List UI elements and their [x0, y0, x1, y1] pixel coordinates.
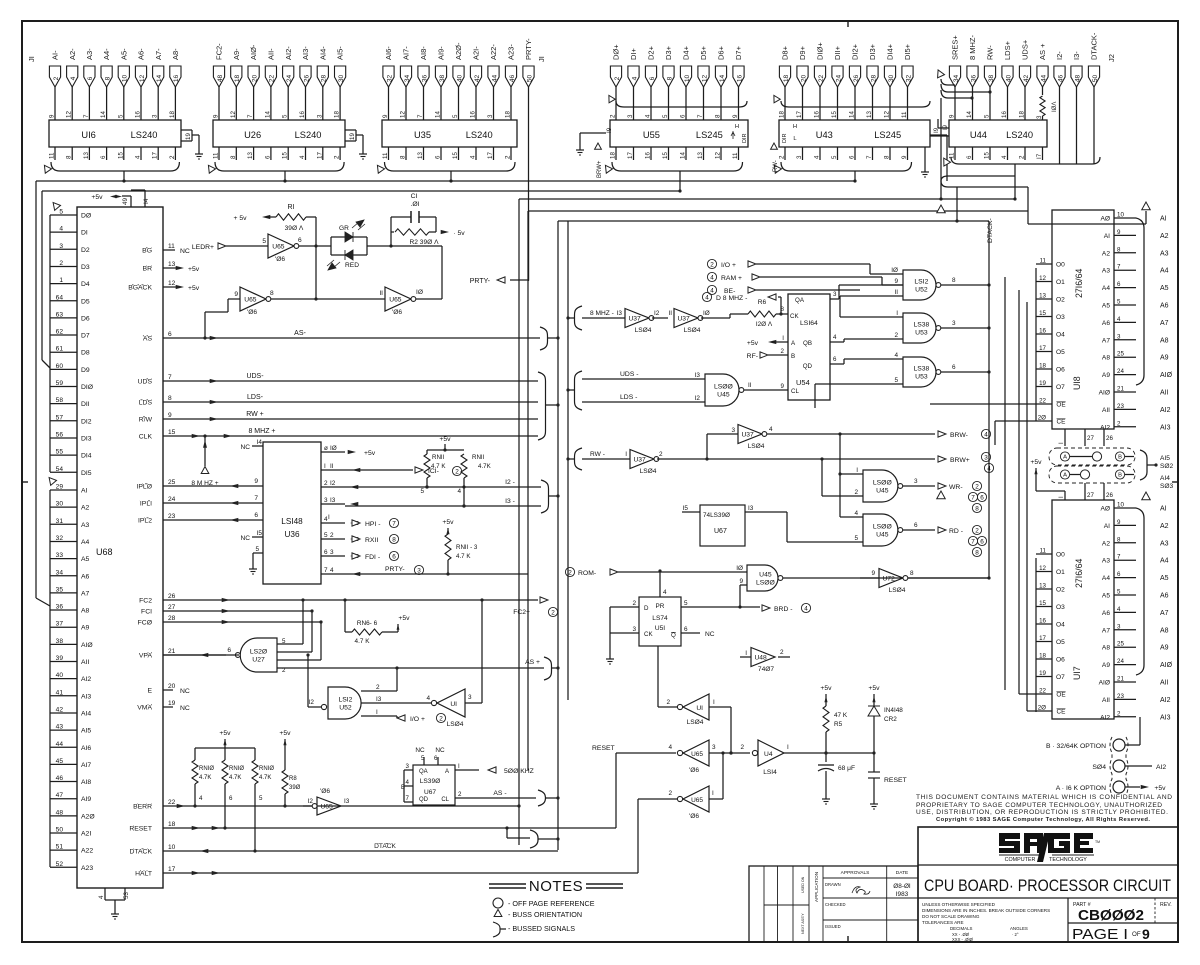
- svg-text:USE, DISTRIBUTION, OR REPRODUC: USE, DISTRIBUTION, OR REPRODUCTION IS ST…: [916, 809, 1168, 816]
- svg-text:A3: A3: [1102, 558, 1110, 565]
- svg-text:4: 4: [769, 426, 773, 433]
- svg-text:A: A: [445, 769, 449, 775]
- svg-text:AI: AI: [1104, 523, 1110, 530]
- svg-text:56: 56: [56, 431, 64, 438]
- buffer U48 7407: [740, 648, 790, 674]
- svg-text:ANGLES: ANGLES: [1010, 926, 1028, 931]
- svg-text:53: 53: [123, 892, 130, 899]
- off page flag BE-: [707, 285, 860, 295]
- U44 bottom pins: [949, 147, 1026, 160]
- svg-text:3: 3: [1117, 333, 1121, 340]
- svg-text:I: I: [745, 650, 747, 657]
- off page flag I/O+: [397, 713, 446, 723]
- svg-text:O7: O7: [1056, 674, 1065, 681]
- svg-text:U55: U55: [643, 130, 660, 140]
- connector pin 46 (I2-): [1054, 51, 1065, 164]
- svg-text:5: 5: [984, 114, 991, 118]
- UI7 address bus bracket: [1136, 492, 1150, 675]
- svg-text:50: 50: [526, 75, 533, 83]
- wire AS+ line to U27: [277, 657, 560, 680]
- wire U68 data bus vertical: [49, 215, 51, 472]
- svg-text:RNIØ: RNIØ: [199, 766, 214, 772]
- svg-text:U67: U67: [424, 789, 436, 796]
- svg-text:I9: I9: [943, 124, 949, 130]
- bus orientation triangle at U68 data bus: [50, 200, 60, 210]
- wire option S04 to AI2: [1125, 764, 1166, 771]
- svg-text:2: 2: [779, 155, 786, 159]
- svg-text:15: 15: [168, 429, 176, 436]
- svg-text:BRW-: BRW-: [950, 432, 968, 439]
- svg-text:DIR: DIR: [782, 134, 788, 144]
- svg-text:JI: JI: [27, 56, 36, 62]
- svg-text:O6: O6: [1056, 657, 1065, 664]
- wire vertical riser x=1019: [1019, 290, 1036, 694]
- svg-text:APPLICATION: APPLICATION: [814, 872, 819, 902]
- svg-text:4: 4: [668, 744, 672, 751]
- connector pin 22 (DIØ+): [814, 42, 825, 120]
- wire middle bus vertical x=519: [518, 199, 520, 845]
- svg-text:I3: I3: [344, 798, 350, 805]
- svg-text:11: 11: [732, 152, 739, 159]
- svg-text:PAGE I: PAGE I: [1072, 927, 1128, 943]
- 8MHZ+ bus feed triangle: [191, 434, 218, 487]
- svg-text:AI3: AI3: [1160, 424, 1171, 431]
- svg-text:UDS -: UDS -: [620, 371, 639, 378]
- svg-text:U53: U53: [915, 373, 928, 380]
- svg-text:6: 6: [684, 626, 688, 633]
- svg-text:A5: A5: [1160, 575, 1169, 582]
- svg-text:8: 8: [952, 277, 956, 284]
- svg-text:AI2: AI2: [1100, 424, 1110, 431]
- svg-text:30: 30: [888, 75, 895, 83]
- svg-text:'Ø6: 'Ø6: [320, 788, 330, 795]
- svg-text:4: 4: [470, 155, 477, 159]
- LED RED: [327, 244, 393, 270]
- svg-text:AII: AII: [1102, 407, 1110, 414]
- svg-text:AI8-: AI8-: [419, 46, 428, 60]
- svg-text:U37: U37: [741, 431, 754, 438]
- svg-text:D9+: D9+: [798, 45, 807, 60]
- svg-text:IØ: IØ: [891, 267, 898, 274]
- U68 pin BERR wire: [133, 799, 519, 811]
- svg-text:A4: A4: [1102, 285, 1110, 292]
- svg-text:28: 28: [321, 75, 328, 83]
- svg-text:26: 26: [1106, 435, 1113, 442]
- svg-text:6: 6: [168, 331, 172, 338]
- svg-text:17: 17: [1039, 345, 1046, 352]
- svg-text:NC: NC: [180, 688, 190, 695]
- NAND LS20 U27: [163, 598, 323, 674]
- svg-text:A2: A2: [81, 505, 90, 512]
- SAGE logo: [999, 833, 1100, 863]
- svg-text:4: 4: [984, 431, 988, 438]
- svg-text:7: 7: [324, 567, 328, 574]
- connector pin 10 (D4+): [680, 45, 691, 120]
- svg-text:49: 49: [122, 197, 129, 205]
- svg-text:12: 12: [139, 75, 146, 83]
- connector pin 48 (I3-) long line: [1071, 51, 1082, 164]
- U55 top pin numbers: [610, 114, 740, 118]
- svg-text:2: 2: [1019, 155, 1026, 159]
- svg-text:U65: U65: [389, 296, 402, 303]
- connector pin 48 (I3-): [1071, 51, 1082, 164]
- svg-text:.ØI: .ØI: [410, 201, 419, 208]
- svg-text:AI4-: AI4-: [318, 46, 327, 60]
- svg-text:· 5v: · 5v: [453, 230, 465, 237]
- svg-text:PR: PR: [656, 603, 665, 610]
- svg-text:AS: AS: [143, 336, 153, 343]
- svg-text:LSØ4: LSØ4: [635, 327, 652, 334]
- svg-text:+5v: +5v: [398, 615, 410, 622]
- UI7 OE pin 22: [1036, 688, 1066, 699]
- svg-text:4.7 K: 4.7 K: [456, 553, 471, 560]
- svg-text:CL: CL: [791, 388, 799, 395]
- svg-text:17: 17: [1039, 635, 1046, 642]
- svg-text:3: 3: [316, 114, 323, 118]
- UI8 CE pin 20: [1036, 415, 1065, 426]
- svg-text:47 K: 47 K: [834, 712, 848, 719]
- svg-text:U68: U68: [96, 547, 113, 557]
- svg-text:LDS -: LDS -: [620, 394, 637, 401]
- svg-text:RN6- 6: RN6- 6: [357, 620, 378, 627]
- svg-text:48: 48: [217, 75, 224, 83]
- svg-text:15: 15: [831, 111, 838, 118]
- svg-text:14: 14: [435, 111, 442, 118]
- svg-text:O5: O5: [1056, 349, 1065, 356]
- NAND LS38 U53b: [844, 352, 991, 387]
- svg-text:A6: A6: [81, 573, 90, 580]
- wire middle bus vertical x=528: [527, 211, 529, 770]
- svg-text:3: 3: [627, 114, 634, 118]
- svg-text:4: 4: [1001, 155, 1008, 159]
- svg-text:58: 58: [56, 397, 64, 404]
- svg-text:A9: A9: [1160, 355, 1169, 362]
- svg-text:4.7K: 4.7K: [229, 775, 241, 781]
- wire AS- brace at LS390: [546, 796, 560, 799]
- svg-text:3: 3: [59, 243, 63, 250]
- U68 pin LDS wire: [139, 394, 538, 407]
- svg-text:A2Ø-: A2Ø-: [454, 42, 463, 60]
- svg-text:AIØ: AIØ: [1099, 680, 1110, 687]
- LED GR: [331, 220, 367, 255]
- svg-text:I2: I2: [695, 395, 701, 402]
- svg-text:A2I: A2I: [81, 831, 91, 838]
- off page flag BRW-: [938, 429, 991, 439]
- svg-text:O1: O1: [1056, 279, 1065, 286]
- svg-text:15: 15: [1039, 310, 1046, 317]
- push button RESET switch: [868, 753, 907, 809]
- svg-text:4: 4: [705, 294, 709, 301]
- svg-text:I: I: [458, 763, 460, 770]
- PRTY- off page flag: [470, 211, 529, 285]
- svg-text:DI3+: DI3+: [868, 43, 877, 60]
- svg-text:5ØØ KHZ: 5ØØ KHZ: [504, 768, 534, 775]
- svg-text:I/O +: I/O +: [721, 262, 736, 269]
- svg-text:D8: D8: [81, 350, 90, 357]
- svg-text:RW +: RW +: [246, 411, 264, 418]
- UI7 output pins O0-O7: [1036, 548, 1065, 682]
- wire OE/CE runs left of ROMs: [930, 404, 1036, 445]
- svg-text:A3: A3: [1102, 268, 1110, 275]
- connector pin 34 (AI7-): [400, 46, 411, 120]
- wire bus horizontal y=221: [558, 187, 989, 223]
- U68 pin DTACK wire: [129, 843, 558, 856]
- off page flag BRD-: [762, 603, 811, 613]
- svg-text:QB: QB: [803, 340, 812, 347]
- svg-text:LS245: LS245: [696, 130, 723, 140]
- svg-text:7: 7: [971, 538, 975, 545]
- connector pin 10 (A5-): [118, 48, 129, 120]
- svg-text:11: 11: [949, 152, 956, 159]
- svg-text:RAM +: RAM +: [721, 275, 742, 282]
- U43 output bus gather: [771, 162, 911, 183]
- svg-text:18: 18: [168, 821, 176, 828]
- svg-text:45: 45: [56, 758, 64, 765]
- svg-text:9: 9: [49, 114, 56, 118]
- svg-text:D3+: D3+: [664, 45, 673, 60]
- svg-text:AI4: AI4: [81, 710, 91, 717]
- svg-text:74Ø7: 74Ø7: [758, 666, 774, 673]
- U36 right pin 7 PRTY wire: [321, 565, 528, 576]
- svg-text:A7: A7: [81, 590, 90, 597]
- svg-text:13: 13: [247, 152, 254, 159]
- svg-text:A5: A5: [1102, 593, 1110, 600]
- svg-text:NC: NC: [705, 631, 715, 638]
- svg-text:25: 25: [168, 479, 176, 486]
- svg-text:7: 7: [1117, 264, 1121, 271]
- svg-text:U65: U65: [691, 751, 703, 758]
- svg-text:A23-: A23-: [507, 44, 516, 60]
- svg-text:+5v: +5v: [364, 450, 376, 457]
- U68 pin BG: [142, 243, 190, 255]
- U35 output bus gather: [374, 162, 515, 183]
- svg-text:A3: A3: [1160, 540, 1169, 547]
- svg-text:23: 23: [168, 513, 176, 520]
- svg-text:IPLØ: IPLØ: [137, 484, 153, 491]
- UI8 output pins O0-O7: [1036, 258, 1065, 392]
- U44 top pin numbers: [949, 111, 1026, 118]
- svg-text:5: 5: [1117, 299, 1121, 306]
- svg-text:BE-: BE-: [724, 288, 735, 295]
- svg-text:QA: QA: [795, 297, 805, 304]
- svg-text:UI6: UI6: [81, 130, 95, 140]
- svg-text:AS -: AS -: [493, 790, 506, 797]
- svg-text:8: 8: [230, 155, 237, 159]
- svg-text:12: 12: [230, 111, 237, 118]
- svg-text:I3: I3: [695, 372, 701, 379]
- svg-text:DI4+: DI4+: [886, 43, 895, 60]
- bus orientation triangle at U68 address bus: [46, 475, 56, 485]
- svg-text:12: 12: [66, 111, 73, 118]
- svg-text:+5v: +5v: [279, 730, 291, 737]
- svg-text:U65: U65: [691, 797, 703, 804]
- svg-text:U4: U4: [764, 751, 773, 758]
- svg-text:DI5+: DI5+: [903, 43, 912, 60]
- svg-text:5: 5: [259, 795, 263, 802]
- bus exit brace 8MHZ-: [566, 306, 582, 330]
- svg-text:4: 4: [426, 695, 430, 702]
- svg-text:BRW+: BRW+: [950, 457, 970, 464]
- connector pin 46 (A23-): [505, 44, 516, 120]
- svg-text:AI: AI: [1104, 233, 1110, 240]
- svg-text:DECIMALS: DECIMALS: [950, 926, 973, 931]
- svg-text:25: 25: [1117, 641, 1124, 648]
- connector pin 38 (AI9-): [435, 46, 446, 120]
- svg-text:5: 5: [324, 532, 328, 539]
- svg-text:FDI -: FDI -: [365, 554, 380, 561]
- svg-text:LSI48: LSI48: [281, 517, 303, 526]
- svg-text:68 μF: 68 μF: [838, 765, 855, 772]
- svg-text:60: 60: [56, 363, 64, 370]
- svg-text:LS38: LS38: [913, 322, 929, 329]
- svg-text:9: 9: [732, 114, 739, 118]
- connector pin 2 (AI-): [49, 50, 60, 120]
- connector pin 50 (DTACK-): [1088, 32, 1099, 164]
- svg-text:41: 41: [56, 689, 64, 696]
- svg-text:7: 7: [697, 114, 704, 118]
- U26 bottom pins: [213, 147, 341, 160]
- wire 8MHZ- to U37: [582, 310, 625, 318]
- svg-text:+5v: +5v: [1154, 785, 1166, 792]
- svg-text:2: 2: [330, 532, 334, 539]
- svg-text:26: 26: [168, 593, 176, 600]
- connector pin 4 (DI+): [628, 48, 639, 121]
- svg-text:14: 14: [966, 111, 973, 118]
- svg-text:6: 6: [980, 494, 984, 501]
- svg-text:A6-: A6-: [137, 48, 146, 60]
- svg-text:QA: QA: [419, 769, 428, 775]
- option circles 32/64K: [1046, 737, 1128, 795]
- wire U18 outputs vertical bus: [1035, 268, 1037, 421]
- svg-text:FC2-: FC2-: [215, 43, 224, 60]
- connector pin 18 (D8+): [779, 45, 790, 120]
- svg-text:9: 9: [213, 114, 220, 118]
- wire pin11 to LS38a vertical: [839, 296, 841, 317]
- svg-text:CBØØØ2: CBØØØ2: [1078, 908, 1144, 924]
- svg-text:AIØ-: AIØ-: [249, 44, 258, 60]
- svg-text:I: I: [787, 744, 789, 751]
- svg-text:74LS39Ø: 74LS39Ø: [703, 512, 730, 519]
- svg-text:USED ON: USED ON: [801, 876, 805, 893]
- svg-text:7: 7: [392, 520, 396, 527]
- UI8 right bus labels A1-A13: [1160, 216, 1173, 432]
- svg-text:LSØ4: LSØ4: [640, 468, 657, 475]
- svg-text:DØ: DØ: [81, 213, 92, 220]
- svg-text:O3: O3: [1056, 314, 1065, 321]
- svg-text:+ 5v: + 5v: [233, 215, 247, 222]
- svg-text:LSØ4: LSØ4: [687, 719, 704, 726]
- svg-text:DTACK-: DTACK-: [1090, 32, 1099, 60]
- svg-text:AI8: AI8: [81, 779, 91, 786]
- svg-text:I3: I3: [617, 310, 623, 317]
- svg-text:28: 28: [870, 75, 877, 83]
- svg-text:2: 2: [376, 684, 380, 691]
- svg-text:BERR: BERR: [133, 804, 152, 811]
- svg-text:27: 27: [1087, 492, 1094, 499]
- svg-text:16: 16: [173, 75, 180, 83]
- svg-text:A22-: A22-: [489, 44, 498, 60]
- svg-text:4.7K: 4.7K: [199, 775, 211, 781]
- svg-text:+5v: +5v: [747, 340, 759, 347]
- svg-text:U43: U43: [816, 130, 833, 140]
- svg-text:DIR: DIR: [742, 134, 748, 144]
- svg-text:HPI -: HPI -: [365, 521, 380, 528]
- svg-text:RD -: RD -: [949, 528, 963, 535]
- svg-text:WR-: WR-: [949, 484, 963, 491]
- svg-text:U45: U45: [876, 531, 889, 538]
- inverter U37c LS04 on RW-: [582, 450, 935, 476]
- svg-text:DTACK-: DTACK-: [987, 218, 994, 243]
- svg-text:AI-: AI-: [51, 50, 60, 60]
- resistor RN10 b 4.7K: [222, 748, 244, 830]
- svg-text:B: B: [1118, 455, 1122, 461]
- svg-text:3: 3: [984, 454, 988, 461]
- svg-text:IØ: IØ: [416, 289, 423, 296]
- inverter U65f '06 halt: [638, 786, 723, 873]
- svg-text:A9: A9: [1102, 372, 1110, 379]
- inverter U72 LS04 gate: [860, 569, 989, 595]
- svg-text:4: 4: [406, 779, 410, 786]
- svg-text:44: 44: [56, 741, 64, 748]
- svg-text:14: 14: [264, 111, 271, 118]
- svg-text:RNIØ: RNIØ: [229, 766, 244, 772]
- svg-text:4: 4: [631, 76, 638, 80]
- svg-text:7: 7: [247, 114, 254, 118]
- wire address bus horizontal y=181: [36, 180, 855, 182]
- svg-text:39Ø Λ: 39Ø Λ: [285, 225, 304, 232]
- svg-text:O6: O6: [1056, 367, 1065, 374]
- connector pin 12 (D5+): [698, 45, 709, 120]
- svg-text:II: II: [894, 289, 898, 296]
- svg-text:U52: U52: [915, 286, 928, 293]
- bus entry brace UDS/LDS/RW/8MHZ: [538, 372, 560, 440]
- svg-text:19: 19: [349, 133, 356, 140]
- part number block: [1073, 902, 1172, 924]
- svg-text:I2Ø Λ: I2Ø Λ: [756, 321, 773, 328]
- svg-text:2: 2: [59, 260, 63, 267]
- svg-text:A6: A6: [1160, 303, 1169, 310]
- BRW+ flag at U55: [595, 143, 603, 178]
- svg-text:JI: JI: [537, 56, 546, 62]
- connector pin 30 (AI5-): [335, 46, 346, 120]
- svg-text:8 MHZ +: 8 MHZ +: [248, 428, 275, 435]
- U26 pin 19 enable and ground: [345, 130, 367, 159]
- svg-text:3: 3: [330, 549, 334, 556]
- svg-text:13: 13: [417, 152, 424, 159]
- U26 top pin numbers: [213, 111, 341, 118]
- svg-text:16: 16: [736, 75, 743, 83]
- svg-text:18: 18: [783, 75, 790, 83]
- svg-text:DII+: DII+: [833, 45, 842, 60]
- connector pin 36 (8 MHZ-): [967, 35, 978, 121]
- U36 right pin 4 HPI wire: [321, 514, 399, 528]
- svg-text:A4: A4: [1102, 575, 1110, 582]
- connector pin 12 (A6-): [135, 48, 146, 120]
- svg-text:13: 13: [866, 111, 873, 118]
- wire option B to A12: [1125, 717, 1140, 745]
- svg-text:34: 34: [56, 569, 64, 576]
- svg-text:4: 4: [457, 488, 461, 495]
- svg-text:RI: RI: [288, 204, 295, 211]
- svg-text:AIØ: AIØ: [1160, 372, 1173, 379]
- svg-text:34: 34: [953, 75, 960, 83]
- svg-text:AI3: AI3: [81, 693, 91, 700]
- svg-text:B: B: [1118, 473, 1122, 479]
- inverter U65e '06 reset: [677, 740, 750, 774]
- svg-text:D5: D5: [81, 298, 90, 305]
- svg-text:13: 13: [697, 152, 704, 159]
- connector pin 28 (DI3+): [867, 43, 878, 120]
